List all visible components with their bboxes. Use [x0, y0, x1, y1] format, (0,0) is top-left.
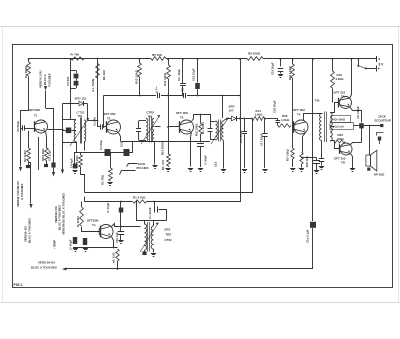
- label VERS N1 DU (rotated): [39, 70, 43, 88]
- wire keyboard N1 down: [45, 91, 47, 109]
- capacitor C9: [180, 58, 186, 96]
- svg-text:R2 12kΩ: R2 12kΩ: [23, 150, 27, 162]
- wire TR2 secondary bottom: [153, 249, 155, 253]
- label R10 (rotated): [161, 141, 165, 155]
- label BLOC A (rotated): [43, 74, 47, 85]
- transformer CTR2 core: [150, 117, 152, 143]
- label SFT322 T5: [334, 91, 346, 99]
- wire rail B seg3: [187, 95, 240, 97]
- wire cap to CTR2: [139, 121, 147, 141]
- label C 50uF (rotated): [69, 239, 73, 250]
- capacitor C13 on AF line: [124, 149, 130, 156]
- label C9 (rotated): [177, 69, 181, 81]
- ground C6: [72, 171, 77, 174]
- label BLOC A TOUCHES b4: [31, 265, 57, 269]
- wire T1 collector: [48, 129, 64, 131]
- wire R6 to AGC line L1: [81, 167, 85, 193]
- svg-text:R1 T6Ω: R1 T6Ω: [101, 174, 105, 185]
- diode SFD112 wire: [63, 103, 80, 105]
- wire detector line: [237, 118, 253, 120]
- resistor R9 220 (series on rail A): [247, 57, 263, 61]
- transformer DT core: [325, 112, 327, 143]
- capacitor across CTR1 primary: [66, 128, 71, 134]
- svg-text:T61: T61: [148, 115, 153, 119]
- svg-text:T3: T3: [180, 116, 184, 120]
- transistor T2: [107, 120, 121, 134]
- label Rb (rotated): [76, 216, 80, 227]
- wire CTR1 primary bottom: [76, 142, 78, 153]
- wire tank top: [63, 119, 77, 121]
- svg-text:SFT320: SFT320: [29, 108, 40, 112]
- svg-text:C1ɑ 0,1μF: C1ɑ 0,1μF: [306, 229, 310, 243]
- capacitor 220pF bridge: [153, 201, 166, 221]
- label SFT351 Ta: [87, 219, 99, 228]
- transistor T6: [340, 143, 353, 155]
- capacitor block B: [83, 238, 87, 245]
- label C 220pF (rotated): [148, 207, 152, 219]
- wire padder drop: [70, 58, 72, 103]
- wire T6 collector to C25 line: [361, 142, 363, 144]
- resistor R2: [27, 148, 31, 161]
- label Ca (rotated): [93, 117, 97, 126]
- wire feedback to return rail: [312, 228, 314, 269]
- ground blockA: [73, 249, 78, 252]
- capacitor C24: [313, 158, 320, 171]
- wire R21 to T4 base: [292, 78, 294, 126]
- svg-text:R12 12kΩ: R12 12kΩ: [163, 72, 167, 86]
- battery 9V positive terminal: [377, 56, 381, 62]
- wire box to C25: [354, 125, 363, 127]
- label TR2b: [166, 233, 172, 237]
- label R6 (rotated): [102, 70, 106, 80]
- wire tank rail: [63, 104, 77, 143]
- capacitor C1: [21, 125, 35, 130]
- transformer CTR3 core: [219, 120, 221, 142]
- capacitor C12 series on rail B: [184, 93, 186, 98]
- svg-text:BLOC A TOUCHES: BLOC A TOUCHES: [31, 265, 57, 269]
- wire T4 base lower: [292, 126, 294, 149]
- svg-text:FIG.1: FIG.1: [14, 283, 23, 287]
- label C11 (rotated): [155, 87, 159, 93]
- wire rail A mid segment: [166, 58, 247, 60]
- wire DT sec bottom to T6 base: [331, 141, 340, 149]
- mystery wire under T1: [38, 137, 40, 170]
- jack pick-up contact 1: [127, 142, 138, 167]
- ground R8: [44, 161, 48, 168]
- wire feedback drop: [312, 58, 314, 221]
- resistor R14: [252, 117, 265, 121]
- label JACK ECOUTEUR: [375, 115, 392, 123]
- svg-text:C4 4μF: C4 4μF: [70, 158, 74, 168]
- transistor Ta: [99, 225, 113, 239]
- wire CTR3 bottom: [223, 141, 225, 169]
- padder capacitor stack: [71, 71, 79, 89]
- svg-text:C13: C13: [120, 141, 124, 147]
- wire rail B seg1: [104, 95, 157, 97]
- svg-text:A L TENE: A L TENE: [91, 78, 95, 92]
- resistor Rb 5k3: [80, 202, 84, 227]
- label SFT359 T2: [104, 112, 116, 121]
- svg-text:745: 745: [315, 99, 320, 103]
- svg-text:PIC•UΒS: PIC•UΒS: [137, 166, 149, 170]
- svg-text:1,5kΩ: 1,5kΩ: [255, 112, 264, 116]
- transformer CTR1 core: [81, 118, 82, 144]
- wire to jack: [364, 125, 381, 127]
- caption FIG.1: [14, 283, 23, 287]
- resistor R agc 4.7k: [133, 200, 147, 203]
- wire L2 to TR2: [136, 201, 145, 225]
- transformer TR2 primary: [145, 224, 147, 250]
- wire Rb to Ta base: [82, 227, 101, 232]
- wire DT center tap: [331, 126, 335, 128]
- label SFT322 T6: [334, 157, 346, 165]
- ground R2: [26, 161, 30, 168]
- wire rail B stub to CTR3: [222, 95, 224, 118]
- ground DT bottom: [319, 167, 324, 170]
- capacitor C17: [262, 119, 267, 169]
- ground C14: [198, 169, 203, 172]
- svg-text:R1 4,7kΩ: R1 4,7kΩ: [133, 195, 146, 199]
- switch stub from rail A: [357, 58, 359, 65]
- capacitor C25 100uF: [359, 110, 364, 143]
- svg-text:VERS B4 DU: VERS B4 DU: [38, 261, 55, 265]
- resistor R2 wire: [28, 131, 30, 148]
- svg-text:C5 12μF: C5 12μF: [48, 150, 52, 161]
- transistor T5: [339, 97, 352, 109]
- label R2 (rotated): [23, 150, 27, 162]
- label R1 (rotated): [24, 65, 28, 78]
- wire T4 collector: [304, 114, 323, 121]
- label C5b (rotated): [53, 240, 57, 249]
- svg-text:C• 10μF: C• 10μF: [106, 202, 110, 213]
- ground CTR2: [152, 166, 157, 169]
- wire diode left leg: [70, 104, 72, 120]
- arrow VERS B4: [62, 268, 67, 271]
- wire CV1 to osc: [46, 108, 54, 110]
- wire T2 base feed: [97, 58, 99, 127]
- svg-text:SFT 352: SFT 352: [293, 108, 305, 112]
- svg-text:VERS N 1 DU: VERS N 1 DU: [39, 70, 43, 88]
- svg-text:1,5kΩ: 1,5kΩ: [281, 118, 290, 122]
- label C25 (rotated): [356, 106, 360, 119]
- svg-text:SFT35Ɵ: SFT35Ɵ: [87, 219, 99, 223]
- label R25 (rotated): [286, 148, 290, 161]
- capacitor across CTR3: [208, 122, 213, 140]
- capacitor C5 block on wire: [51, 163, 55, 168]
- switch S1: [357, 65, 367, 70]
- label R14: [255, 109, 264, 117]
- label C12 (rotated): [181, 88, 185, 93]
- label CTR2: [147, 111, 155, 119]
- jack pick-up contact 2: [120, 171, 136, 175]
- svg-text:C15 20nF: C15 20nF: [239, 130, 243, 143]
- capacitor DT bottom: [319, 159, 324, 166]
- ground C1b: [118, 241, 123, 244]
- svg-text:R1 56kΩ: R1 56kΩ: [24, 65, 28, 78]
- transformer CTR2 primary: [146, 119, 148, 142]
- transformer CTR3 secondary: [222, 121, 224, 140]
- label 745: [315, 99, 320, 103]
- wire AGC L2: [85, 197, 133, 202]
- resistor R22 emitter: [300, 153, 303, 168]
- svg-text:TR2: TR2: [166, 233, 172, 237]
- resistor R21: [291, 58, 295, 78]
- arrow to keyboard block 3: [61, 170, 64, 175]
- capacitor across CTR2: [136, 121, 141, 140]
- svg-text:T1: T1: [34, 114, 38, 118]
- ground TR2 primary: [142, 251, 146, 255]
- wire CTR2 bottom drop: [154, 142, 156, 165]
- wire to keyboard block 2: [53, 108, 55, 172]
- label R23: [337, 133, 345, 141]
- label C1b (rotated): [115, 232, 119, 243]
- label BLOC A TOUCHES 1b (rotated): [28, 218, 32, 243]
- wire TR2 primary bottom: [144, 250, 146, 252]
- label VERS B4 DU: [38, 261, 55, 265]
- wire CTR3 to diode: [224, 119, 232, 121]
- wire R16 to T5 base: [332, 89, 334, 103]
- resistor R4 series on rail A: [71, 57, 84, 60]
- svg-text:R10 500Ω: R10 500Ω: [161, 141, 165, 155]
- transistor T1: [35, 120, 48, 133]
- svg-text:C20 50pF: C20 50pF: [273, 100, 277, 113]
- scan page bottom edge: [0, 302, 400, 304]
- svg-text:C16: C16: [214, 161, 218, 167]
- label R36: [281, 114, 290, 122]
- label C14 (rotated): [204, 155, 208, 165]
- wire emitter to C24: [301, 157, 316, 159]
- speaker terminal: [367, 168, 370, 171]
- svg-text:107: 107: [229, 109, 234, 113]
- resistor R5 (series on rail A): [151, 57, 166, 61]
- arrow to keyboard block 1: [19, 167, 22, 172]
- wire T1 emitter: [46, 132, 47, 149]
- transformer TR2 core: [148, 222, 150, 252]
- label R16: [336, 73, 345, 81]
- label BLOC A TOUCHES (rotated): [58, 205, 62, 230]
- label C17 (rotated): [260, 133, 264, 146]
- arrow trimmer CTR1: [70, 118, 89, 146]
- svg-text:SFT 359: SFT 359: [104, 112, 116, 116]
- label SFT359 T3: [176, 111, 188, 120]
- svg-text:aj 3,2 mA: aj 3,2 mA: [332, 125, 344, 129]
- label R16b (rotated): [195, 123, 199, 136]
- svg-text:R5 7k8: R5 7k8: [152, 53, 162, 57]
- label R12b (rotated): [161, 160, 165, 170]
- capacitor C14: [197, 144, 204, 168]
- wire return rail: [67, 268, 314, 270]
- svg-text:A TOUCHES: A TOUCHES: [20, 184, 24, 200]
- svg-text:R1• 470: R1• 470: [161, 160, 165, 170]
- capacitor C 50uF block A: [73, 237, 77, 244]
- wire AF line: [74, 152, 133, 154]
- wire osc line to keyboard 3: [63, 143, 77, 170]
- svg-text:C1• 10μF: C1• 10μF: [177, 69, 181, 81]
- resistor R12: [167, 58, 171, 154]
- scan page top edge: [0, 26, 400, 28]
- wire switch to battery: [366, 68, 376, 70]
- ground blockB: [83, 249, 88, 252]
- wire detector line 2: [265, 118, 278, 120]
- svg-text:VERS IM DU BLOC A TOUCHES: VERS IM DU BLOC A TOUCHES: [62, 193, 66, 235]
- svg-text:Ca 50μ: Ca 50μ: [99, 140, 103, 150]
- label VERS IM DU (rotated): [62, 193, 66, 235]
- wire tank bottom: [63, 142, 77, 144]
- svg-text:C18 50μF: C18 50μF: [271, 62, 275, 75]
- wire T6 collector: [351, 143, 362, 145]
- jack symbol: [377, 133, 384, 145]
- capacitor C16 electrolytic: [195, 58, 200, 96]
- ground T6 emitter: [350, 169, 355, 172]
- wire diode right leg: [87, 104, 89, 121]
- arrow to keyboard block 2: [52, 172, 55, 177]
- ground R12b: [165, 169, 170, 172]
- label CTR1: [77, 111, 85, 119]
- label R21 (rotated): [288, 66, 292, 80]
- svg-text:R•• 100Ω: R•• 100Ω: [201, 122, 205, 134]
- svg-text:CT02: CT02: [165, 238, 172, 242]
- resistor R25 base lower: [291, 148, 294, 167]
- svg-text:ECOUTEUR: ECOUTEUR: [375, 119, 392, 123]
- label R5: [152, 53, 162, 57]
- svg-text:R16 100Ω: R16 100Ω: [195, 123, 199, 136]
- label VERS B1 DU (rotated): [54, 206, 58, 223]
- label C15b (rotated): [214, 161, 218, 167]
- resistor R8: [45, 148, 49, 161]
- label PICK-UP: [137, 166, 149, 170]
- wire DT primary bottom: [321, 141, 323, 159]
- svg-text:Ca 50n: Ca 50n: [93, 117, 97, 126]
- wire Ta collector: [112, 224, 141, 227]
- svg-text:BLOC A: BLOC A: [43, 74, 47, 85]
- wire T2 emitter: [119, 133, 121, 142]
- wire T3 collector: [192, 114, 211, 122]
- label C 10uF (rotated): [106, 202, 110, 213]
- ground TR2 secondary: [151, 254, 156, 257]
- svg-text:Δ T••: Δ T••: [155, 87, 159, 93]
- svg-text:R8 5,6kΩ: R8 5,6kΩ: [41, 148, 45, 161]
- wire CTR2 secondary to T3: [155, 126, 161, 128]
- arrow to keyboard block 1b: [29, 204, 32, 209]
- ground R22: [299, 169, 304, 172]
- wire rail A right segment: [263, 58, 377, 60]
- wire AGC L2 right: [147, 58, 241, 201]
- transformer CTR2 secondary: [152, 119, 154, 142]
- wire T3 emitter: [191, 133, 192, 167]
- capacitor Ca series in base line: [98, 124, 107, 129]
- label R6 (rotated): [75, 155, 79, 168]
- svg-text:SFT 359: SFT 359: [176, 111, 188, 115]
- label C6 (rotated): [70, 158, 74, 168]
- svg-text:4Ω• 500Ω: 4Ω• 500Ω: [333, 118, 346, 122]
- label Rb (rotated): [101, 174, 105, 185]
- svg-text:C•• 22ơF: C•• 22ơF: [148, 207, 152, 219]
- wire CTR1 secondary to T2: [88, 120, 98, 122]
- svg-text:C• 50μF: C• 50μF: [69, 239, 73, 250]
- svg-text:R6 1kΩ: R6 1kΩ: [102, 70, 106, 80]
- label R8 (rotated): [41, 148, 45, 161]
- label HP 20ohm: [374, 173, 385, 177]
- wire T5 emitter: [350, 107, 362, 111]
- label R 4.7k: [133, 195, 146, 199]
- resistor R6: [79, 153, 83, 168]
- svg-text:C2• 100μF: C2• 100μF: [356, 106, 360, 119]
- wire speaker feed: [369, 126, 371, 156]
- svg-text:BLOC A TOUCHES: BLOC A TOUCHES: [28, 218, 32, 243]
- label R22 (rotated): [305, 155, 309, 167]
- capacitor C20: [276, 119, 281, 126]
- diode SFD112: [79, 101, 88, 106]
- thermistor box CTN: [331, 116, 351, 123]
- transformer DT primary: [320, 114, 322, 141]
- svg-text:BFS: BFS: [165, 228, 171, 232]
- svg-text:R13 3,9kΩ: R13 3,9kΩ: [135, 69, 139, 84]
- wire IF ground line: [121, 141, 210, 143]
- label BFS: [165, 228, 171, 232]
- label C20 (rotated): [273, 100, 277, 113]
- label CT02: [165, 238, 172, 242]
- wire T5 collector to rail A: [350, 58, 353, 98]
- wire to keyboard block 1b: [29, 163, 31, 204]
- label R4 on rail: [71, 52, 80, 56]
- wire AGC L1: [85, 119, 253, 193]
- capacitor C1b: [118, 226, 125, 240]
- svg-text:R• 7k8: R• 7k8: [71, 52, 80, 56]
- transformer CTR1 secondary: [84, 120, 86, 142]
- ground C15: [242, 170, 247, 173]
- arrow trimmer CTR2: [141, 115, 160, 144]
- label JACK: [138, 162, 147, 166]
- svg-text:C1 50pF: C1 50pF: [16, 121, 20, 132]
- wire T6 emitter: [351, 154, 353, 169]
- svg-text:CV 504: CV 504: [66, 76, 70, 86]
- transformer CTR3 primary: [216, 121, 218, 140]
- wire CTR1 secondary tap: [84, 142, 86, 151]
- svg-text:aff. 1kΩ: aff. 1kΩ: [112, 252, 116, 263]
- label SFT320: [29, 108, 40, 112]
- label T1: [34, 114, 38, 118]
- resistor R23: [334, 140, 345, 143]
- label R17 (rotated): [201, 122, 205, 134]
- label VERS B2 DU (rotated): [24, 226, 28, 242]
- capacitor C11 series on rail B: [158, 93, 160, 98]
- svg-text:R9 220Ω: R9 220Ω: [248, 52, 261, 56]
- junction dots detector: [239, 118, 266, 120]
- capacitor C15: [242, 119, 247, 169]
- label Ca (rotated): [99, 140, 103, 150]
- svg-text:C16 10μF: C16 10μF: [192, 68, 196, 81]
- jack terminal: [380, 124, 383, 127]
- label R13 (rotated): [135, 69, 139, 84]
- wire rail A left segment: [29, 58, 152, 60]
- svg-text:HP 20Ω: HP 20Ω: [374, 173, 385, 177]
- svg-text:R21 1,5kΩ: R21 1,5kΩ: [288, 66, 292, 80]
- transformer TR2 secondary: [151, 226, 153, 249]
- resistor R12b lower: [167, 154, 171, 167]
- scan page right edge: [398, 27, 400, 304]
- ground C24: [314, 171, 319, 174]
- transformer DT secondary: [330, 113, 332, 142]
- svg-text:R• 5kΩ3: R• 5kΩ3: [76, 216, 80, 227]
- label C1 (rotated): [16, 121, 20, 132]
- ground T3 emitter: [188, 169, 193, 172]
- ground CTR3: [221, 170, 226, 173]
- ground C17: [262, 170, 267, 173]
- label C13 (rotated): [120, 141, 124, 147]
- resistor R16b: [199, 115, 202, 143]
- resistor R16: [331, 58, 335, 88]
- diode SFD107: [232, 116, 237, 121]
